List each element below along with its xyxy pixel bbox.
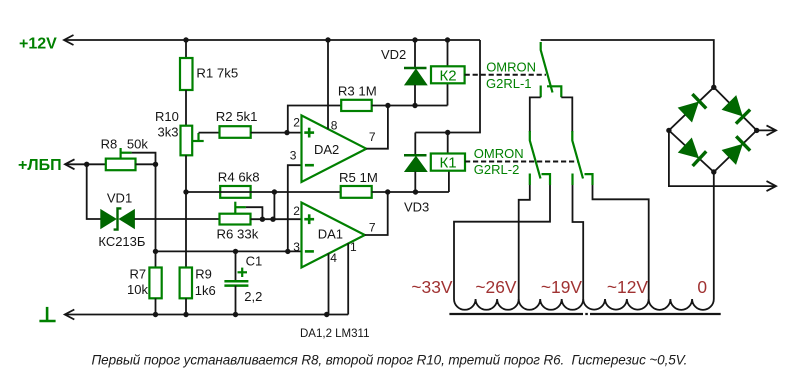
resistor R7 (149, 268, 161, 299)
pin 4 DA1 (330, 251, 337, 265)
wire K1 bottom lead (448, 171, 450, 192)
node bridge bottom (711, 169, 716, 174)
label R9 (195, 267, 212, 282)
label KS213B (98, 234, 145, 249)
node rail R1 (183, 37, 188, 42)
svg-text:8: 8 (331, 119, 338, 133)
resistor R5 (341, 186, 372, 198)
wire R8 right lead (136, 163, 156, 165)
label K2 (439, 67, 456, 84)
node rail pin8 (325, 37, 330, 42)
arrow +LBP (65, 159, 75, 169)
zener VD1 (101, 208, 135, 229)
transformer winding 33-26 (454, 299, 519, 310)
label 50k (127, 136, 148, 151)
wiper R6 (235, 202, 246, 215)
svg-text:R1 7k5: R1 7k5 (196, 65, 238, 80)
node R3 out (385, 103, 390, 108)
node VD2 bottom (412, 103, 417, 108)
svg-text:10k: 10k (127, 282, 148, 297)
wire poleA NC to tap2 (519, 185, 530, 299)
svg-text:3: 3 (293, 240, 300, 254)
node R7 gnd (153, 312, 158, 317)
bridge diode left-bottom (679, 139, 707, 167)
resistor R9 (180, 268, 192, 299)
arrow +12V (64, 35, 74, 45)
pin 1 DA1 (350, 240, 357, 254)
label VD2 (381, 47, 406, 62)
node bridge left (666, 128, 671, 133)
node bridge top (711, 85, 716, 90)
resistor R4 (220, 186, 250, 198)
wire DA1 pin4 (328, 253, 330, 314)
arrow minus out (767, 181, 777, 191)
net label +12V (19, 36, 57, 53)
pin 7 DA2 (369, 130, 376, 144)
svg-text:~33V: ~33V (411, 277, 452, 297)
label ~33V (411, 277, 452, 297)
svg-text:R2 5k1: R2 5k1 (216, 109, 258, 124)
pin 7 DA1 (369, 220, 376, 234)
node pin3 bus (285, 249, 290, 254)
net label +LBP (18, 157, 62, 174)
wire relay1 NO to poleB (561, 97, 572, 132)
contact arm G2RL-1 (541, 42, 553, 93)
label VD3 (404, 199, 429, 214)
pin 8 DA2 (331, 119, 338, 133)
polarity plus C1 (238, 268, 248, 277)
label DA1,2 LM311 (300, 328, 369, 340)
relay coil K1 (431, 154, 465, 171)
node C1 gnd (233, 312, 238, 317)
transformer core (449, 313, 720, 315)
label R7 (130, 267, 147, 282)
svg-text:VD3: VD3 (404, 199, 429, 214)
svg-text:DA2: DA2 (314, 142, 339, 157)
label 1k6 (195, 283, 216, 298)
svg-text:~26V: ~26V (475, 277, 516, 297)
wire pin2 up to R3 (288, 106, 341, 133)
svg-text:R6 33k: R6 33k (217, 227, 259, 242)
contact NO G2RL-2b (585, 174, 593, 185)
svg-text:1k6: 1k6 (195, 283, 216, 298)
node R6 wiper out (260, 217, 265, 222)
wire VD1 to R6 (134, 218, 219, 220)
svg-text:+12V: +12V (19, 36, 57, 53)
svg-text:2,2: 2,2 (244, 289, 262, 304)
svg-text:50k: 50k (127, 136, 148, 151)
node R8 out (153, 162, 158, 167)
label 10k (127, 282, 148, 297)
label OMRON 2 (474, 146, 524, 161)
diode VD3 (404, 133, 427, 193)
node +LBP branch (84, 162, 89, 167)
svg-text:R5 1M: R5 1M (339, 170, 378, 185)
relay coil K2 (431, 66, 465, 83)
wire R1-R10 (185, 90, 187, 126)
arrow ground (65, 310, 75, 320)
wire R1 top lead (185, 40, 187, 58)
diode VD2 (404, 40, 427, 106)
potentiometer R10 (181, 126, 193, 156)
wire R10 wiper to R2 (199, 132, 220, 134)
label DA2 (314, 142, 339, 157)
wire C1 bottom lead (235, 286, 237, 315)
label R1 7k5 (196, 65, 238, 80)
node R4-R6 link (272, 189, 277, 194)
label R4 6k8 (218, 170, 260, 185)
svg-text:VD2: VD2 (381, 47, 406, 62)
svg-text:DA1: DA1 (318, 227, 343, 242)
label R8 (101, 136, 118, 151)
svg-text:+ЛБП: +ЛБП (18, 157, 62, 174)
wire poleB NO to tap4 (593, 185, 649, 299)
svg-text:G2RL-2: G2RL-2 (474, 162, 520, 177)
svg-text:4: 4 (330, 251, 337, 265)
label DA1 (318, 227, 343, 242)
wire DA1 output (365, 192, 388, 235)
svg-text:0: 0 (697, 277, 707, 297)
label R5 1M (339, 170, 378, 185)
node bridge right (754, 128, 759, 133)
potentiometer R8 (106, 159, 136, 171)
wire K2 top lead (447, 40, 449, 66)
contact arm G2RL-2a (530, 131, 541, 179)
svg-text:C1: C1 (246, 253, 263, 268)
svg-text:К2: К2 (439, 67, 456, 84)
node R5 out (385, 189, 390, 194)
wire threshold bus (156, 250, 302, 252)
svg-text:~19V: ~19V (541, 277, 582, 297)
svg-text:R4 6k8: R4 6k8 (218, 170, 260, 185)
wire relay1 NC to poleA (530, 97, 541, 132)
svg-text:7: 7 (369, 220, 376, 234)
wiper R10 (192, 133, 204, 142)
dashed link K2 (465, 74, 546, 76)
svg-text:VD1: VD1 (107, 191, 132, 206)
bridge outline (669, 87, 757, 172)
resistor R2 (220, 126, 251, 138)
wire DA2 pin8 (327, 40, 329, 129)
node R10-R4 (183, 189, 188, 194)
svg-text:3: 3 (290, 148, 297, 162)
wire R9 bottom (185, 298, 187, 314)
wire R8 node down (155, 164, 157, 267)
wire +12V rail drop to K1 feed (415, 40, 480, 133)
wire ground bus (65, 314, 348, 316)
wire relay1 common top (541, 40, 714, 87)
wire bridge plus out (757, 129, 776, 131)
wire C1 top lead (235, 251, 237, 281)
label 0 (697, 277, 707, 297)
wire R10 bottom column (185, 155, 187, 267)
wire R8 wiper link (132, 153, 156, 165)
wire +LBP to R8 (65, 163, 106, 165)
pin 3 DA2 (290, 148, 297, 162)
svg-text:2: 2 (293, 204, 300, 218)
svg-text:R10: R10 (155, 109, 179, 124)
wiper R8 (121, 148, 132, 159)
label K1 (439, 155, 456, 172)
node threshold bus left (153, 249, 158, 254)
wire R4R6 vertical (273, 192, 275, 219)
label 2,2 (244, 289, 262, 304)
wire R6 wiper link (246, 207, 263, 219)
dashed link K1 (465, 161, 578, 163)
contact NC G2RL-2a (529, 174, 531, 186)
label VD1 (107, 191, 132, 206)
svg-text:7: 7 (369, 130, 376, 144)
arrow plus out (767, 125, 777, 135)
svg-text:OMRON: OMRON (486, 60, 536, 75)
node pin4 gnd (324, 312, 329, 317)
potentiometer R6 (220, 214, 251, 225)
svg-text:3k3: 3k3 (158, 125, 179, 140)
resistor R3 (341, 100, 372, 111)
wire R7 bottom (155, 298, 157, 314)
pin 3 DA1 (293, 240, 300, 254)
node R9 gnd (183, 312, 188, 317)
svg-text:2: 2 (293, 116, 300, 130)
label C1 (246, 253, 263, 268)
transformer winding 19-12 (583, 299, 648, 310)
svg-text:DA1,2 LM311: DA1,2 LM311 (300, 328, 369, 340)
svg-text:К1: К1 (439, 155, 456, 172)
wire DA2 output (366, 106, 388, 149)
op-amp DA1 (302, 203, 365, 268)
contact NC G2RL-1 (540, 86, 542, 98)
contact arm G2RL-2b (572, 131, 583, 179)
wire +LBP down to VD1 (87, 164, 101, 219)
caption (92, 353, 688, 368)
label ~12V (607, 277, 648, 297)
wire +12V rail (64, 39, 480, 41)
node C1 top (233, 249, 238, 254)
label OMRON 1 (486, 60, 536, 75)
svg-text:G2RL-1: G2RL-1 (486, 76, 532, 91)
node rail VD2 (412, 37, 417, 42)
svg-text:OMRON: OMRON (474, 146, 524, 161)
svg-text:Первый порог устанавливается R: Первый порог устанавливается R8, второй … (92, 353, 688, 368)
svg-text:R7: R7 (130, 267, 147, 282)
wire R4 row (186, 191, 341, 193)
label ~19V (541, 277, 582, 297)
label R2 5k1 (216, 109, 258, 124)
transformer winding 12-0 (649, 299, 714, 310)
wire bridge minus out (669, 130, 776, 186)
svg-text:КС213Б: КС213Б (98, 234, 145, 249)
wire K2 bottom lead (447, 83, 449, 105)
node R6-link (270, 217, 275, 222)
label R10 (155, 109, 179, 124)
bridge diode bottom-right (723, 136, 751, 164)
pin 2 DA2 (293, 116, 300, 130)
resistor R1 (180, 58, 193, 90)
capacitor C1 (224, 281, 248, 285)
label G2RL-2 (474, 162, 520, 177)
wire DA1 pin1 (347, 243, 349, 314)
pin 2 DA1 (293, 204, 300, 218)
transformer winding 26-19 (519, 299, 584, 310)
label G2RL-1 (486, 76, 532, 91)
wire poleA NO to tap1 (454, 185, 550, 299)
ground symbol (39, 307, 55, 321)
svg-text:1: 1 (350, 240, 357, 254)
wire R5 row (372, 191, 449, 193)
node K1 top branch (445, 130, 450, 135)
node VD3 bottom (413, 189, 418, 194)
node DA2 pin2 (284, 130, 289, 135)
wire R6 to DA1 pin2 (251, 218, 302, 220)
svg-text:R9: R9 (195, 267, 212, 282)
wire poleB NC to tap3 (573, 185, 584, 299)
contact NO G2RL-2a (542, 174, 551, 185)
svg-text:~12V: ~12V (607, 277, 648, 297)
wire R3 right (372, 105, 448, 107)
label ~26V (475, 277, 516, 297)
bridge diode top-right (723, 96, 751, 124)
node rail K2 (445, 37, 450, 42)
wire DA2 pin3 (288, 165, 302, 251)
wire K1 top lead (447, 133, 449, 154)
contact NC G2RL-2b (571, 174, 573, 186)
label R3 1M (338, 84, 377, 99)
svg-text:R8: R8 (101, 136, 118, 151)
label R6 33k (217, 227, 259, 242)
wire R2 right (251, 132, 302, 134)
wire bridge to tap0 (713, 172, 715, 299)
contact NO G2RL-1 (547, 86, 561, 97)
label 3k3 (158, 125, 179, 140)
bridge diode left-top (679, 94, 707, 122)
svg-text:R3 1M: R3 1M (338, 84, 377, 99)
op-amp DA2 (302, 115, 367, 182)
